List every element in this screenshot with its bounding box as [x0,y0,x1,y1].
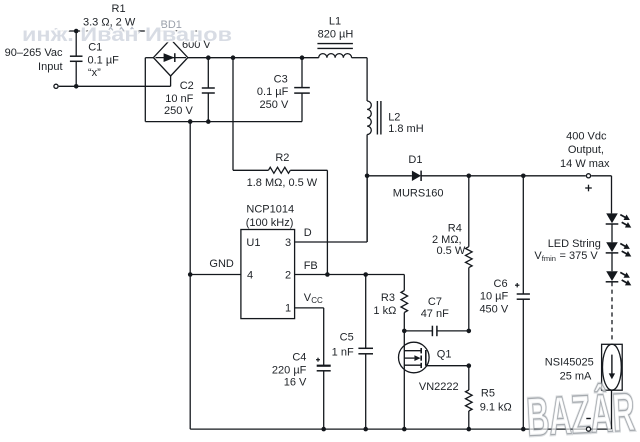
svg-text:9.1 kΩ: 9.1 kΩ [480,401,512,413]
svg-text:MURS160: MURS160 [393,188,444,200]
pin label FB [304,260,318,272]
watermark top [22,25,232,46]
junction C6 bottom [521,427,526,432]
svg-text:0.1 µF: 0.1 µF [257,86,289,98]
output terminal minus [586,419,591,432]
svg-text:L2: L2 [388,112,400,124]
svg-text:250 V: 250 V [260,99,289,111]
diode D1 MURS160 [393,154,444,199]
svg-text:10 nF: 10 nF [165,93,193,105]
CCR NSI45025 [545,344,622,390]
LED D4 [606,271,632,285]
pin label D [304,227,312,239]
svg-text:fmin: fmin [542,254,556,263]
wire output line left [367,175,412,177]
label LED string [534,238,601,263]
junction C2 bottom [206,119,211,124]
input terminal bottom [54,84,58,88]
junction C2 top [206,55,211,60]
wire output line right [421,176,611,214]
junction C7-R4 [467,329,472,334]
pin label VCC [304,292,323,305]
svg-text:инж. Иван Иванов: инж. Иван Иванов [22,25,232,46]
wire pin3 D [295,241,368,243]
svg-text:0.1 µF: 0.1 µF [88,54,120,66]
wire left return bus [189,122,191,430]
wire L2 down to D pin node [366,135,368,243]
inductor L1 [317,15,353,57]
svg-text:820 µH: 820 µH [318,29,354,41]
junction C1 top [74,29,79,34]
svg-text:BAZÂR: BAZÂR [525,381,636,442]
junction FB-R2 [325,272,330,277]
transistor Q1 VN2222 [399,331,469,429]
wire led1-led2 [611,224,613,242]
svg-text:R5: R5 [481,388,495,400]
wire bottom rail [190,428,611,430]
svg-text:C4: C4 [292,352,306,364]
svg-text:C7: C7 [428,296,442,308]
svg-text:R1: R1 [112,3,126,15]
svg-text:U1: U1 [246,237,260,249]
svg-text:C2: C2 [180,80,194,92]
output terminal plus [585,174,592,192]
svg-text:400 Vdc: 400 Vdc [566,130,607,142]
svg-text:10 µF: 10 µF [480,291,509,303]
capacitor C2 [164,58,215,122]
input terminal top [54,29,58,33]
wire top rail [188,57,319,59]
resistor R1 [83,3,210,34]
junction C3 top [300,55,305,60]
junction R2 tap [231,55,236,60]
inductor L2 [367,101,424,135]
svg-text:L1: L1 [329,15,341,27]
capacitor C7 [404,296,469,336]
capacitor C4 [272,352,331,430]
op IC U1 NCP1014 [241,203,295,318]
wire dashed LED continuation [611,282,613,342]
resistor R4 [432,176,472,331]
svg-text:GND: GND [209,258,234,270]
svg-text:90–265 Vac: 90–265 Vac [5,47,63,59]
junction GND bus [188,272,193,277]
svg-text:(100 kHz): (100 kHz) [246,217,294,229]
wire led2-led3 [611,253,613,271]
LED D2 [606,213,632,227]
svg-text:25 mA: 25 mA [560,370,592,382]
svg-text:2: 2 [285,270,291,282]
svg-text:3: 3 [285,237,291,249]
svg-text:D: D [304,227,312,239]
svg-text:16 V: 16 V [284,377,307,389]
junction R4 top [467,174,472,179]
junction Q1 gate-R5 [467,363,472,368]
label input [5,47,63,73]
label output [560,130,610,170]
svg-text:R2: R2 [275,152,289,164]
svg-text:Input: Input [38,61,62,73]
wire input top [59,30,83,32]
wire rail to R2 [233,58,268,171]
wire bridge left leg [145,58,153,122]
wire R2 to FB node [290,170,327,274]
capacitor C1 [70,31,119,86]
svg-text:1.8 mH: 1.8 mH [388,123,424,135]
LED D3 [606,242,632,256]
wire D node riser [366,176,368,242]
wire L1 to L2 [352,58,368,101]
bridge rectifier BD1 [153,19,211,76]
watermark bazar [525,381,636,442]
label GND [209,258,234,270]
junction Q1 source bottom [402,427,407,432]
junction FB-C5 [363,272,368,277]
svg-text:NCP1014: NCP1014 [246,203,294,215]
svg-text:47 nF: 47 nF [421,308,449,320]
svg-text:C3: C3 [274,74,288,86]
svg-text:LED String: LED String [548,238,601,250]
svg-text:= 375 V: = 375 V [560,250,599,262]
svg-text:250 V: 250 V [164,105,193,117]
junction C4 bottom [321,427,326,432]
svg-text:R4: R4 [448,223,462,235]
resistor R2 [247,152,318,189]
svg-text:VN2222: VN2222 [419,381,459,393]
junction C5 bottom [363,427,368,432]
svg-text:C5: C5 [340,331,354,343]
capacitor C6 [479,176,529,429]
resistor R5 [466,366,512,429]
wire NSI to bottom [611,390,613,429]
wire mid return rail [145,121,302,123]
wire FB line [295,274,405,276]
svg-text:Output,: Output, [568,144,604,156]
wire pin4 GND [190,274,241,276]
svg-text:0.5 W: 0.5 W [437,245,466,257]
svg-text:R3: R3 [381,292,395,304]
wire input bottom [59,76,171,87]
svg-text:450 V: 450 V [479,304,508,316]
svg-text:1 nF: 1 nF [332,346,354,358]
junction D1 anode node [365,174,370,179]
svg-text:FB: FB [304,260,318,272]
svg-text:NSI45025: NSI45025 [545,356,594,368]
svg-text:C6: C6 [494,278,508,290]
svg-text:“x”: “x” [88,67,101,79]
svg-text:1.8 MΩ, 0.5 W: 1.8 MΩ, 0.5 W [247,177,318,189]
junction return rail left [188,119,193,124]
svg-text:CC: CC [311,296,323,305]
junction R5 bottom [467,427,472,432]
capacitor C3 [257,58,310,122]
resistor R3 [373,275,407,331]
svg-text:220 µF: 220 µF [272,364,307,376]
wire R1 to bridge [170,32,172,40]
svg-text:4: 4 [247,269,253,281]
svg-text:1: 1 [285,303,291,315]
svg-text:1 kΩ: 1 kΩ [373,305,396,317]
svg-text:Q1: Q1 [437,349,452,361]
svg-text:14 W max: 14 W max [560,158,610,170]
svg-text:2 MΩ,: 2 MΩ, [432,234,462,246]
svg-text:D1: D1 [408,154,422,166]
wire pin1 VCC to C4 [295,308,324,366]
junction C6 top [521,174,526,179]
junction gate node A [402,329,407,334]
capacitor C5 [332,275,373,430]
junction C1 bottom [74,84,79,89]
